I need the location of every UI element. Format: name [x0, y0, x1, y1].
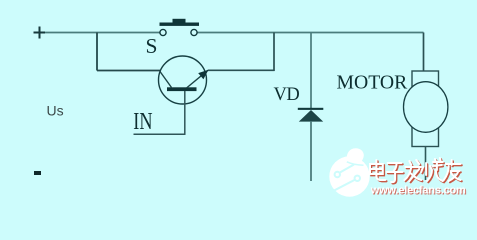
wire diode branch lower	[310, 121, 312, 181]
diode VD	[298, 108, 324, 122]
wire motor bottom lead	[425, 147, 427, 181]
svg-text:IN: IN	[133, 108, 152, 135]
wire base horizontal to IN	[134, 133, 186, 135]
switch S pushbutton	[160, 19, 200, 36]
svg-text:MOTOR: MOTOR	[337, 72, 409, 94]
watermark logo (elecfans)	[329, 148, 369, 197]
wire emitter feed horizontal	[97, 70, 161, 72]
svg-text:www.elecfans.com: www.elecfans.com	[370, 185, 466, 197]
svg-text:S: S	[146, 34, 158, 58]
svg-text:Us: Us	[47, 103, 64, 119]
wire top rail right segment	[198, 32, 424, 34]
svg-text:VD: VD	[274, 85, 300, 105]
watermark text 电子发烧友 (white glyph strokes with red drop shadow)	[370, 158, 462, 183]
wire left branch vertical (junction at x=97)	[96, 33, 98, 71]
wire diode branch upper	[310, 33, 312, 109]
wire top rail left segment	[45, 32, 160, 34]
wire collector horizontal	[208, 69, 275, 71]
wire collector riser to top rail	[273, 33, 275, 72]
motor M	[404, 71, 448, 147]
transistor V (NPN)	[159, 56, 209, 104]
- terminal	[34, 171, 41, 175]
wire motor feed (top rail corner down)	[423, 33, 425, 72]
+ terminal	[34, 27, 46, 39]
wire base vertical	[184, 91, 186, 134]
